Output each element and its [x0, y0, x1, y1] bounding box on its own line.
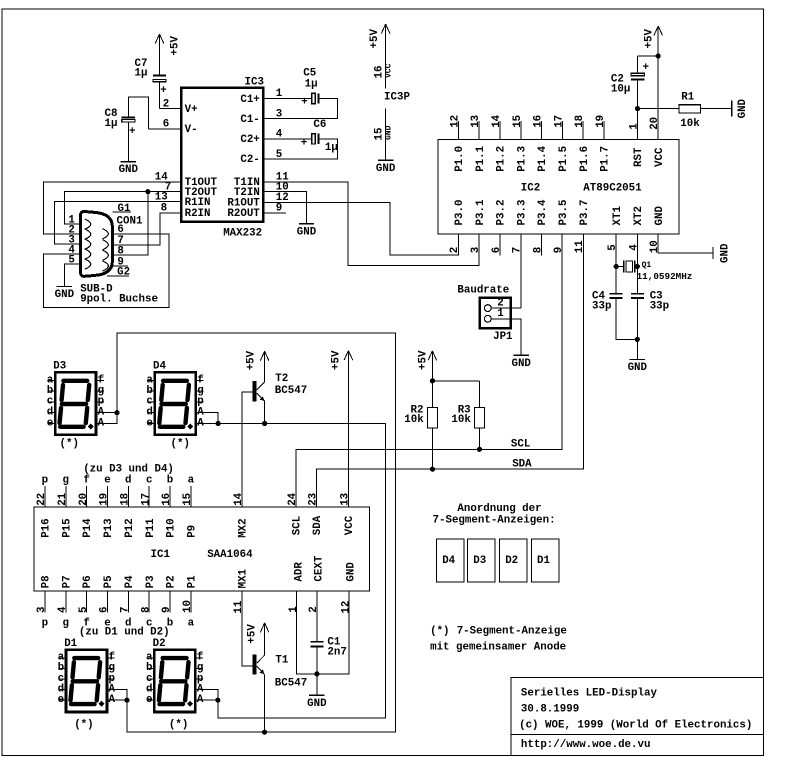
svg-text:33p: 33p	[592, 301, 611, 313]
capacitor C8	[122, 116, 135, 118]
svg-text:SCL: SCL	[292, 516, 304, 535]
D2 pins f g p A A	[197, 657, 204, 659]
svg-text:+: +	[301, 96, 307, 108]
svg-text:P1: P1	[187, 575, 199, 588]
wire C4 to ground node	[616, 298, 637, 340]
wire +5V junction to R3	[432, 380, 479, 382]
svg-text:SCL: SCL	[511, 439, 530, 451]
svg-text:10k: 10k	[451, 414, 471, 426]
IC2 pin 15 P1.3 stub	[520, 121, 522, 139]
svg-text:+5V: +5V	[247, 624, 259, 644]
CON1 left pin contacts	[85, 219, 91, 229]
svg-text:R1: R1	[681, 91, 694, 103]
junction node crystal ground	[635, 337, 640, 342]
D4 decimal point	[187, 424, 193, 430]
svg-text:2: 2	[308, 606, 320, 612]
svg-text:P3.2: P3.2	[496, 200, 508, 226]
resistor R2	[431, 381, 433, 408]
svg-text:c: c	[146, 475, 152, 487]
svg-text:D1: D1	[537, 555, 550, 567]
wire net anode D2/D4 to T2 emitter	[218, 424, 386, 718]
svg-text:18: 18	[574, 115, 586, 128]
svg-text:P1.0: P1.0	[454, 146, 466, 172]
wire CON1 pin 5 to ground	[64, 264, 80, 286]
stub IC3 pin 9 R2OUT	[264, 212, 286, 214]
ground at R1 (rotated)	[731, 100, 733, 116]
D4 pins f g p A A	[197, 380, 204, 382]
svg-text:18: 18	[120, 493, 132, 506]
svg-text:8: 8	[140, 607, 152, 613]
svg-text:VCC: VCC	[344, 515, 356, 535]
display arrangement box D3	[468, 539, 496, 582]
IC1 pin 13 VCC wire to +5V	[347, 351, 349, 507]
svg-text:T1: T1	[275, 655, 288, 667]
svg-text:(*): (*)	[60, 438, 79, 450]
svg-text:MX1: MX1	[238, 568, 250, 588]
IC2 pin 18 P1.6 stub	[582, 121, 584, 139]
svg-text:1µ: 1µ	[325, 142, 338, 154]
wire D4 anode jog	[197, 413, 218, 424]
display arrangement box D4	[437, 539, 465, 582]
svg-text:3: 3	[470, 247, 482, 253]
D3 segments figure 8	[60, 381, 90, 427]
capacitor C1	[310, 641, 323, 643]
junction node D3 anode	[114, 410, 119, 415]
D1 segments figure 8	[71, 658, 101, 704]
svg-text:e: e	[104, 475, 110, 487]
svg-text:IC3: IC3	[245, 76, 264, 88]
svg-text:http://www.woe.de.vu: http://www.woe.de.vu	[521, 739, 651, 751]
svg-text:D3: D3	[53, 361, 66, 373]
capacitor C3	[636, 267, 638, 294]
svg-text:Q1: Q1	[642, 261, 652, 270]
svg-text:9: 9	[161, 607, 173, 613]
ground at crystal	[630, 359, 645, 361]
svg-text:VCC: VCC	[654, 147, 666, 167]
svg-text:P4: P4	[124, 575, 136, 588]
svg-text:4: 4	[57, 606, 69, 613]
svg-text:16: 16	[533, 115, 545, 128]
svg-text:P1.4: P1.4	[537, 145, 549, 171]
svg-text:7: 7	[120, 607, 132, 613]
svg-text:5: 5	[78, 607, 90, 613]
IC1 pin 7 P4 (segment d) stub	[127, 591, 129, 613]
svg-text:14: 14	[491, 114, 503, 127]
svg-text:P3: P3	[145, 575, 157, 588]
svg-text:P6: P6	[82, 575, 94, 588]
svg-text:(*): (*)	[74, 719, 93, 731]
svg-text:5: 5	[276, 149, 282, 161]
display arrangement box D2	[500, 539, 527, 582]
svg-text:P1.1: P1.1	[475, 145, 487, 171]
svg-text:P16: P16	[41, 518, 53, 537]
IC2 pin 8 P3.4 stub	[541, 234, 543, 255]
svg-text:a: a	[188, 475, 195, 487]
D1 pins f g p A A	[108, 657, 115, 659]
svg-text:9: 9	[276, 203, 282, 215]
7-segment display D3 body	[55, 372, 96, 434]
svg-text:AT89C2051: AT89C2051	[583, 183, 642, 195]
wire net anode D1/D3 to T1 emitter	[117, 333, 396, 732]
svg-text:XT2: XT2	[633, 206, 645, 225]
svg-text:e: e	[47, 417, 53, 429]
svg-text:+5V: +5V	[246, 350, 258, 370]
wire IC3 pin 1 (C1+) to C5	[264, 98, 311, 100]
IC2 pin 6 P3.2 stub	[499, 234, 501, 255]
svg-text:D2: D2	[505, 555, 518, 567]
svg-text:GND: GND	[654, 206, 666, 226]
transistor T2 BC547	[252, 381, 256, 401]
svg-text:P15: P15	[61, 518, 73, 537]
svg-text:GND: GND	[737, 98, 749, 118]
svg-text:R2OUT: R2OUT	[227, 208, 260, 220]
svg-text:GND: GND	[307, 698, 327, 710]
svg-text:+: +	[643, 62, 649, 74]
wire JP1 pin 1 to ground	[491, 319, 521, 356]
display arrangement box D1	[531, 539, 559, 582]
junction node D1 anode	[124, 698, 129, 703]
wire IC3 pin 12 R1OUT to IC2 P3.0	[264, 202, 458, 255]
IC2 pin 12 P1.0 stub	[457, 121, 459, 139]
7-segment display D4 body	[155, 372, 196, 434]
IC1 pin 6 P5 (segment e) stub	[107, 591, 109, 613]
D4 segments figure 8	[159, 381, 189, 427]
svg-text:GND: GND	[720, 243, 732, 263]
IC2 pin 4 XT2 stub	[636, 234, 638, 266]
svg-text:5: 5	[607, 244, 619, 250]
svg-text:24: 24	[287, 492, 299, 505]
svg-text:8: 8	[532, 247, 544, 253]
wire D3 anode jog	[97, 412, 117, 414]
svg-text:e: e	[146, 417, 152, 429]
svg-text:SDA: SDA	[312, 515, 324, 535]
svg-text:+: +	[129, 126, 135, 138]
wire D1 anode jog	[108, 690, 127, 701]
ground at IC1	[309, 694, 324, 696]
svg-text:1: 1	[288, 606, 300, 613]
svg-text:D1: D1	[64, 638, 77, 650]
IC2 pin 19 P1.7 stub	[603, 121, 605, 139]
svg-text:6: 6	[491, 247, 503, 253]
svg-text:P3.0: P3.0	[454, 200, 466, 226]
IC1 pin 8 P3 (segment c) stub	[148, 591, 150, 613]
svg-text:P1.6: P1.6	[579, 146, 591, 172]
IC2 pin 16 P1.4 stub	[541, 121, 543, 139]
svg-text:e: e	[58, 694, 64, 706]
svg-text:d: d	[125, 475, 131, 487]
junction node D4 anode	[216, 421, 221, 426]
svg-text:10k: 10k	[404, 414, 424, 426]
svg-text:11: 11	[233, 600, 245, 613]
junction node VCC/C2	[656, 53, 661, 58]
LED driver IC1 body	[34, 507, 370, 591]
svg-text:7-Segment-Anzeigen:: 7-Segment-Anzeigen:	[433, 514, 556, 526]
title block frame	[511, 678, 764, 756]
svg-text:P13: P13	[103, 518, 115, 537]
svg-text:VCC: VCC	[385, 63, 394, 78]
svg-text:GND: GND	[376, 163, 396, 175]
IC1 pin 12 GND wire to ground node	[317, 591, 349, 674]
resistor R1	[679, 105, 701, 113]
svg-text:13: 13	[340, 493, 352, 506]
power pin symbol IC3P +5V arrow (pin 16 VCC)	[385, 24, 387, 88]
svg-text:a: a	[188, 617, 195, 629]
svg-text:GND: GND	[511, 358, 531, 370]
IC1 pin 1 ADR wire to ground node	[297, 591, 317, 674]
wire IC3 pin 13 R1IN to CON1 pin 3	[55, 202, 180, 245]
svg-text:4: 4	[276, 129, 283, 141]
D4 cathode pins a-e	[148, 380, 154, 382]
svg-text:(zu D1 und D2): (zu D1 und D2)	[79, 627, 170, 639]
JP1 pin 2 pad	[484, 305, 491, 312]
IC1 pin 18 P12 (segment d) stub	[127, 486, 129, 507]
IC1 pin 14 MX2 wire to T2 base	[242, 392, 253, 507]
wire IC3 pin 10 T2IN to ground	[264, 192, 306, 224]
svg-text:12: 12	[340, 601, 352, 614]
svg-text:Baudrate: Baudrate	[457, 284, 509, 296]
svg-text:C1+: C1+	[240, 94, 259, 106]
svg-text:+: +	[301, 137, 307, 149]
ground at C8	[121, 161, 136, 163]
wire IC3 pin 8 R2IN to CON1 pin 7	[113, 213, 180, 245]
svg-text:4: 4	[628, 244, 640, 251]
wire RST node to R1	[638, 108, 680, 110]
junction node ADR/CEXT/GND	[314, 671, 319, 676]
svg-text:BC547: BC547	[275, 385, 307, 397]
stub CON1 pin 9	[113, 265, 128, 267]
IC1 pin 5 P6 (segment f) stub	[86, 591, 88, 613]
svg-text:P14: P14	[82, 518, 94, 538]
svg-text:10µ: 10µ	[611, 83, 630, 95]
svg-text:JP1: JP1	[493, 331, 513, 343]
title block separator line	[511, 734, 764, 736]
svg-text:GND: GND	[55, 289, 75, 301]
svg-text:D2: D2	[153, 638, 166, 650]
svg-text:22: 22	[36, 493, 48, 506]
svg-text:23: 23	[308, 493, 320, 506]
D1 cathode pins a-e	[59, 657, 65, 659]
IC1 pin 22 P16 (segment p) stub	[44, 486, 46, 507]
svg-text:P3.1: P3.1	[475, 199, 487, 225]
IC2 pin 5 XT1 stub	[615, 234, 617, 266]
D3 cathode pins a-e	[48, 380, 54, 382]
IC1 pin 16 P10 (segment b) stub	[169, 486, 171, 507]
svg-text:+5V: +5V	[369, 29, 381, 49]
svg-text:C2+: C2+	[240, 134, 259, 146]
svg-text:6: 6	[163, 119, 169, 131]
D2 decimal point	[187, 701, 193, 707]
svg-text:BC547: BC547	[275, 678, 307, 690]
wire IC3 pin 14 T1OUT to CON1 pin 2	[44, 182, 180, 234]
IC1 pin 11 MX1 wire to T1 base	[242, 591, 253, 666]
svg-text:1: 1	[276, 88, 283, 100]
svg-text:16: 16	[373, 66, 385, 79]
junction node R2/R3 +5V	[430, 378, 435, 383]
svg-text:10: 10	[649, 240, 661, 253]
svg-text:f: f	[83, 475, 89, 487]
svg-text:3: 3	[36, 607, 48, 613]
microcontroller IC2 body	[438, 140, 679, 235]
IC2 pin 14 P1.2 stub	[499, 121, 501, 139]
wire net SCL from IC1 pin 24 to IC2 P3.5	[296, 234, 562, 507]
wire +5V to C2	[638, 55, 659, 57]
svg-text:12: 12	[449, 115, 461, 128]
ground at IC3P	[378, 159, 393, 161]
junction node T2 emitter	[262, 421, 267, 426]
svg-text:P1.2: P1.2	[496, 146, 508, 172]
svg-text:+5V: +5V	[169, 36, 181, 56]
svg-text:P1.3: P1.3	[516, 146, 528, 172]
wire T2 emitter to D4/D2 anode line	[264, 401, 266, 423]
IC1 pin 10 P1 (segment a) stub	[190, 591, 192, 613]
svg-text:P9: P9	[187, 525, 199, 538]
svg-text:(c) WOE, 1999 (World Of Electr: (c) WOE, 1999 (World Of Electronics)	[519, 720, 752, 732]
svg-text:C2-: C2-	[240, 154, 259, 166]
power +5V symbol at R2/R3	[431, 351, 433, 381]
junction node R3/SCL	[477, 447, 482, 452]
svg-text:1µ: 1µ	[305, 79, 318, 91]
wire XT1 to crystal	[614, 264, 619, 269]
wire C6 to IC3 pin 5 (C2-)	[264, 139, 337, 159]
svg-text:XT1: XT1	[612, 206, 624, 226]
svg-text:IC3P: IC3P	[384, 92, 410, 104]
svg-text:9: 9	[553, 247, 565, 253]
svg-text:13: 13	[155, 191, 168, 203]
IC1 pin 15 P9 (segment a) stub	[190, 486, 192, 507]
power +5V symbol at IC2 VCC	[657, 26, 659, 56]
svg-text:GND: GND	[119, 164, 139, 176]
wire C8 to IC3 pin 6	[128, 97, 148, 129]
svg-text:V-: V-	[185, 124, 198, 136]
svg-text:11: 11	[574, 240, 586, 253]
svg-text:G1: G1	[118, 203, 131, 215]
IC1 pin 9 P2 (segment b) stub	[169, 591, 171, 613]
svg-text:SAA1064: SAA1064	[207, 549, 253, 561]
svg-text:20: 20	[649, 117, 661, 130]
svg-text:MAX232: MAX232	[223, 228, 262, 240]
svg-text:19: 19	[99, 493, 111, 506]
D2 cathode pins a-e	[147, 657, 153, 659]
svg-text:17: 17	[553, 115, 565, 128]
ground at IC2 pin 10 (rotated)	[712, 247, 714, 259]
svg-text:8: 8	[161, 203, 167, 215]
svg-text:CON1: CON1	[117, 215, 143, 227]
svg-text:V+: V+	[185, 104, 198, 116]
wire T1 emitter to D1/D3 anode line	[264, 674, 266, 732]
IC1 pin 2 CEXT wire to C1	[316, 591, 318, 642]
svg-text:p: p	[42, 617, 48, 629]
svg-text:10k: 10k	[680, 118, 700, 130]
wire IC3 pin 7 T2OUT to CON1 pin 1	[65, 192, 180, 225]
crystal Q1	[623, 261, 625, 273]
svg-text:1µ: 1µ	[135, 67, 148, 79]
svg-text:P2: P2	[166, 575, 178, 588]
svg-text:GND: GND	[628, 362, 648, 374]
power +5V symbol at C7	[159, 34, 161, 75]
svg-text:C6: C6	[313, 119, 326, 131]
wire IC3 pin 4 (C2+) to C6	[264, 138, 311, 140]
svg-text:17: 17	[140, 493, 152, 506]
svg-text:3: 3	[276, 108, 282, 120]
svg-text:P1.7: P1.7	[600, 146, 612, 172]
svg-text:P3.7: P3.7	[579, 200, 591, 226]
wire net SDA from IC1 pin 23 to IC2 P3.7	[316, 234, 583, 507]
capacitor C4	[615, 267, 617, 294]
svg-text:e: e	[146, 694, 152, 706]
svg-text:+: +	[160, 85, 166, 97]
svg-text:+5V: +5V	[418, 350, 430, 370]
IC2 pin 1 RST stub	[637, 109, 639, 140]
svg-text:g: g	[63, 617, 69, 629]
CON1 right pin contacts	[102, 229, 108, 239]
capacitor C7	[153, 74, 166, 76]
svg-text:13: 13	[470, 115, 482, 128]
svg-text:b: b	[167, 475, 173, 487]
svg-text:RST: RST	[633, 147, 645, 167]
D3 decimal point	[88, 424, 94, 430]
wire C2 to RST node	[637, 79, 639, 108]
IC2 pin 10 GND wire to ground	[658, 234, 713, 253]
IC1 pin 4 P7 (segment g) stub	[65, 591, 67, 613]
junction node T1 emitter	[262, 730, 267, 735]
junction node R2/SDA	[430, 467, 435, 472]
svg-text:2n7: 2n7	[327, 647, 346, 659]
junction node RST	[635, 106, 640, 111]
ground at T2IN	[299, 223, 314, 225]
wire CON1 pin 4 to pin 6 loop	[44, 234, 169, 308]
wire T2OUT junction to CON1 pin 8	[113, 192, 148, 256]
svg-text:30.8.1999: 30.8.1999	[521, 704, 579, 716]
svg-text:6: 6	[99, 607, 111, 613]
svg-text:D3: D3	[473, 555, 486, 567]
svg-text:P5: P5	[103, 575, 115, 588]
op-amp-style IC U: MAX232 IC3 body	[181, 88, 263, 222]
svg-text:T2: T2	[275, 373, 288, 385]
svg-text:P7: P7	[61, 575, 73, 588]
svg-text:P12: P12	[124, 518, 136, 537]
svg-text:15: 15	[182, 493, 194, 506]
svg-text:10: 10	[182, 600, 194, 613]
svg-text:GND: GND	[297, 226, 317, 238]
svg-text:P3.4: P3.4	[537, 199, 549, 225]
junction node T2OUT	[145, 189, 150, 194]
svg-text:(*): (*)	[430, 625, 449, 637]
IC3P pin 15 GND lead	[385, 109, 387, 161]
svg-text:Serielles LED-Display: Serielles LED-Display	[521, 687, 658, 699]
svg-text:Anordnung der: Anordnung der	[457, 503, 541, 515]
svg-text:D4: D4	[442, 555, 455, 567]
svg-text:11,0592MHz: 11,0592MHz	[637, 271, 693, 282]
connector CON1 SUB-D shell	[81, 211, 113, 276]
svg-text:P8: P8	[41, 575, 53, 588]
svg-text:mit gemeinsamer Anode: mit gemeinsamer Anode	[430, 642, 566, 654]
IC2 pin 13 P1.1 stub	[478, 121, 480, 139]
wire C8 to ground	[127, 122, 129, 162]
svg-text:GND: GND	[346, 562, 358, 582]
resistor R3	[478, 381, 480, 408]
D3 pins f g p A A	[97, 380, 104, 382]
wire C5 to IC3 pin 3 (C1-)	[264, 99, 337, 119]
svg-text:7: 7	[512, 247, 524, 253]
svg-text:P11: P11	[145, 518, 157, 538]
svg-text:(*): (*)	[169, 719, 188, 731]
svg-text:P3.5: P3.5	[558, 200, 570, 226]
IC1 pin 17 P11 (segment c) stub	[148, 486, 150, 507]
svg-text:+5V: +5V	[331, 350, 343, 370]
wire R1 to ground	[701, 108, 732, 110]
D2 segments figure 8	[159, 658, 189, 704]
wire C7 to IC3 pin 2	[159, 82, 161, 109]
